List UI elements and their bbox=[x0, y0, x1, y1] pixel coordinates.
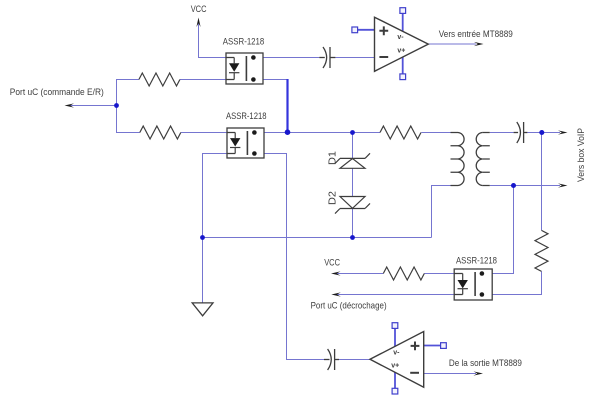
arrow De la sortie MT8889 right bbox=[474, 371, 484, 375]
node B junction bbox=[350, 130, 355, 135]
wire U4 V- terminal bbox=[402, 13, 404, 35]
svg-text:ASSR-1218: ASSR-1218 bbox=[456, 255, 497, 266]
wire U2 pin4 to junction A bbox=[264, 132, 288, 134]
node Port uC E/R junction bbox=[114, 103, 119, 108]
wire Port uC (décrochage) to U3 pin2 bbox=[337, 294, 454, 296]
capacitor C1 bbox=[319, 47, 335, 68]
svg-text:v+: v+ bbox=[391, 362, 399, 369]
resistor R1 bbox=[139, 73, 180, 86]
svg-text:VCC: VCC bbox=[191, 4, 207, 15]
wire R3 to transformer primary top bbox=[421, 132, 450, 134]
wire bottom rail bbox=[203, 237, 432, 239]
optocoupler U2 ASSR-1218 bbox=[227, 128, 264, 158]
wire U2 pin3 to ground drop bbox=[203, 154, 228, 303]
wire C1 to op-amp U4 inverting input bbox=[335, 57, 374, 59]
wire U1 pin5 to corner bbox=[263, 79, 288, 81]
wire U1 pin4 to C1 bbox=[263, 57, 319, 59]
wire U5 non-inverting input to terminal bbox=[424, 345, 441, 347]
arrow Vers box VoIP bottom right bbox=[558, 183, 568, 187]
terminal U5 non-inverting input bbox=[441, 343, 447, 349]
wire transformer primary bottom to bottom rail bbox=[432, 186, 451, 238]
resistor R5 vertical bbox=[535, 230, 548, 271]
wire R4 to U3 pin1 bbox=[424, 273, 454, 275]
wire U4 output to arrow Vers entrée bbox=[428, 43, 476, 45]
wire U5 inverting input to arrow De la sortie bbox=[424, 373, 476, 375]
wire transformer secondary top to C2 bbox=[490, 132, 514, 134]
svg-text:v+: v+ bbox=[397, 48, 405, 55]
svg-text:D2: D2 bbox=[326, 191, 338, 205]
wire VCC drop to U1 pin1 bbox=[199, 21, 227, 58]
resistor R4 bbox=[383, 267, 424, 280]
wire node B to R3 bbox=[353, 132, 381, 134]
wire VCC2 arrow to R4 bbox=[337, 273, 383, 275]
wire R1 to U1 pin2 bbox=[180, 79, 226, 81]
wire node to R2 bbox=[117, 106, 140, 133]
wire R2 to U2 pin1 bbox=[181, 132, 227, 134]
wire C3 to op-amp U5 apex bbox=[339, 359, 370, 361]
capacitor C2 bbox=[514, 122, 528, 143]
transformer secondary winding bbox=[482, 133, 490, 186]
node A junction bbox=[285, 129, 291, 135]
svg-text:ASSR-1218: ASSR-1218 bbox=[223, 36, 264, 47]
wire node C to arrow Vers box VoIP top bbox=[542, 132, 561, 134]
svg-text:v-: v- bbox=[393, 350, 400, 357]
wire thick down to junction A bbox=[286, 79, 288, 132]
wire U4 non-inverting input bbox=[357, 29, 375, 31]
svg-text:Vers box VoIP: Vers box VoIP bbox=[576, 128, 587, 182]
wire node B through D1 D2 to bottom rail bbox=[352, 133, 354, 238]
wire Port uC (commande E/R) stub bbox=[70, 105, 117, 107]
wire transformer secondary bottom to node D bbox=[490, 185, 514, 187]
node C junction bbox=[539, 130, 544, 135]
wire U4 V+ terminal bbox=[402, 54, 404, 75]
wire U5 V+ terminal bbox=[394, 368, 396, 390]
arrow Port uC (décrochage) left bbox=[331, 292, 341, 296]
svg-text:v-: v- bbox=[397, 34, 404, 41]
node ground-rail junction bbox=[200, 235, 205, 240]
terminal U4 V+ bottom bbox=[400, 74, 406, 80]
svg-text:D1: D1 bbox=[326, 151, 338, 165]
resistor R3 bbox=[380, 126, 421, 139]
arrow Vers entrée MT8889 right bbox=[474, 42, 484, 46]
arrow VCC up bbox=[196, 18, 200, 28]
arrow VCC2 left bbox=[331, 271, 341, 275]
zener diode D2 bbox=[335, 197, 370, 214]
svg-text:VCC: VCC bbox=[324, 258, 340, 269]
op-amp U4 bbox=[375, 17, 429, 71]
svg-text:ASSR-1218: ASSR-1218 bbox=[226, 111, 267, 122]
optocoupler U1 ASSR-1218 bbox=[226, 53, 263, 84]
terminal U5 V- top bbox=[392, 323, 398, 329]
wire node D to arrow Vers box VoIP bottom bbox=[514, 185, 561, 187]
wire C2 to node C bbox=[527, 132, 541, 134]
capacitor C3 bbox=[324, 349, 339, 370]
svg-text:Port uC (décrochage): Port uC (décrochage) bbox=[311, 301, 387, 312]
wire U2 pin5 down to C3 and op-amp U5 bbox=[264, 154, 324, 360]
op-amp U5 (mirrored) bbox=[370, 332, 424, 388]
resistor R2 bbox=[140, 126, 181, 139]
terminal U4 non-inverting input bbox=[352, 27, 358, 33]
arrow Vers box VoIP top right bbox=[558, 130, 568, 134]
terminal U5 V+ bottom bbox=[392, 388, 398, 394]
transformer primary winding bbox=[451, 133, 459, 186]
op-amp terminal stub wires (thicker blue) bbox=[357, 13, 441, 389]
wire R5 to U3 pin5 bbox=[492, 271, 541, 294]
svg-text:Vers entrée MT8889: Vers entrée MT8889 bbox=[439, 29, 513, 40]
node B2 bottom-rail junction bbox=[350, 235, 355, 240]
zener diode D1 bbox=[335, 153, 370, 168]
wire node C down to R5 bbox=[541, 133, 543, 231]
terminal U4 V- top bbox=[400, 8, 406, 14]
wire node to R1 bbox=[117, 80, 139, 106]
node D junction bbox=[511, 183, 516, 188]
wire junction A to node B bbox=[288, 132, 353, 134]
svg-text:De la sortie MT8889: De la sortie MT8889 bbox=[449, 358, 522, 369]
svg-text:Port uC (commande E/R): Port uC (commande E/R) bbox=[10, 87, 104, 98]
optocoupler U3 ASSR-1218 bbox=[454, 269, 492, 300]
wire node D down to U3 pin4 bbox=[492, 186, 513, 274]
ground symbol bbox=[192, 303, 213, 316]
arrow Port uC (commande E/R) left bbox=[65, 103, 75, 107]
wire U5 V- terminal bbox=[394, 328, 396, 349]
